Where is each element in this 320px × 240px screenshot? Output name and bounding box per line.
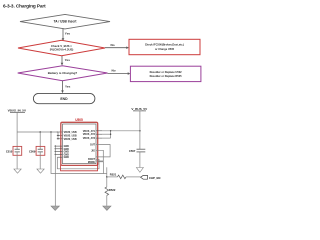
svg-text:MODE: MODE	[88, 161, 96, 164]
wire red U loop	[61, 163, 98, 171]
ground MGND left (filled)	[51, 206, 59, 210]
wire arrow down Yes1	[62, 28, 71, 41]
svg-text:GND: GND	[64, 156, 70, 159]
pin stubs right top	[96, 131, 102, 138]
svg-text:No: No	[111, 43, 115, 47]
wire VBUS bus horizontal	[17, 131, 58, 133]
wire inner gray U loop	[57, 157, 99, 169]
svg-text:Battery is Charging?: Battery is Charging?	[48, 71, 78, 75]
wire down to resistor junction	[106, 167, 108, 177]
svg-text:Yes: Yes	[65, 84, 71, 88]
wire outer U to junction connector	[104, 173, 107, 175]
svg-text:VBUS_AT3: VBUS_AT3	[83, 137, 96, 140]
flowchart start diamond TA/USB Insert	[20, 14, 110, 29]
svg-text:6-3-3. Charging Part: 6-3-3. Charging Part	[3, 3, 46, 8]
svg-text:Resolder or Replace U502: Resolder or Replace U502	[150, 70, 183, 74]
svg-text:C509: C509	[29, 150, 36, 154]
net label VBUS_IN_5V	[8, 109, 26, 113]
svg-text:Yes: Yes	[65, 32, 71, 36]
svg-text:Check IFC500(Broken,Dust,etc.: Check IFC500(Broken,Dust,etc.)	[145, 43, 184, 47]
svg-text:VBUS_AT2: VBUS_AT2	[83, 133, 96, 136]
net label V_BUS_5V	[131, 107, 148, 111]
wire right pin tie	[110, 131, 112, 138]
svg-text:R522: R522	[109, 188, 116, 192]
terminator END	[33, 93, 95, 103]
svg-text:R521: R521	[110, 173, 117, 177]
wire right loop JIG-161	[96, 150, 103, 161]
svg-text:JIG: JIG	[91, 149, 95, 152]
ground under C510	[14, 155, 21, 173]
wire VBUS_IN_5V down	[16, 113, 18, 132]
ground under C509	[37, 155, 44, 173]
wire right loop OUT-BOOT	[96, 145, 110, 157]
pin stubs left VBUS	[57, 132, 63, 139]
svg-text:U505: U505	[75, 118, 83, 122]
decision diamond Check V_BUS (red)	[18, 40, 105, 56]
node bus-C509	[39, 131, 41, 133]
pin labels U505 left	[64, 131, 77, 159]
node R junction	[106, 176, 108, 178]
svg-text:or Charge U505: or Charge U505	[155, 47, 175, 51]
wire No2 to purple box	[108, 69, 131, 75]
ground MGND right (filled)	[103, 206, 111, 210]
node CHP_EN tag	[141, 175, 161, 180]
resistor R522	[105, 177, 116, 206]
wire pin tie left top	[57, 132, 59, 139]
capacitor C509	[29, 132, 45, 155]
node right VBUS tie junction 2	[110, 134, 111, 135]
wire arrow down Yes2	[61, 56, 71, 66]
node left VBUS tie junction 1	[57, 135, 58, 136]
node left VBUS tie junction 2	[57, 138, 58, 139]
svg-text:VBUS_USB: VBUS_USB	[64, 138, 77, 141]
capacitor C510	[6, 132, 22, 155]
action box Check IFC500 (red)	[129, 39, 200, 54]
svg-text:5V(CHGVI>4.3US): 5V(CHGVI>4.3US)	[50, 48, 74, 52]
svg-text:VBUS_IN_5V: VBUS_IN_5V	[8, 109, 26, 113]
wire GND tie down to ground	[54, 146, 56, 206]
wire No1 to red box	[105, 43, 129, 49]
node bus-down	[50, 131, 52, 133]
wire arrow down Yes3	[61, 81, 70, 93]
svg-text:C510: C510	[6, 150, 13, 154]
svg-text:Resolder or Replace R525: Resolder or Replace R525	[150, 74, 183, 78]
svg-text:C507: C507	[129, 149, 136, 153]
node right VBUS tie junction 1	[110, 130, 111, 131]
svg-text:OUT: OUT	[90, 144, 96, 147]
ground under C507	[136, 168, 143, 173]
resistor R521	[107, 173, 141, 179]
IC U505	[61, 118, 98, 166]
pin labels U505 right	[83, 130, 96, 164]
svg-text:Yes: Yes	[65, 58, 71, 62]
wire V_BUS_5V down	[139, 111, 141, 149]
svg-text:TA / USB Insert: TA / USB Insert	[54, 20, 78, 24]
node V_BUS_5V junction	[139, 130, 141, 132]
svg-text:CHP_EN: CHP_EN	[149, 176, 160, 180]
action box Resolder or Replace (purple)	[130, 66, 201, 81]
capacitor C507	[129, 149, 145, 168]
wire VBUS right to V_BUS_5V	[102, 130, 140, 132]
svg-text:V_BUS_5V: V_BUS_5V	[131, 107, 148, 111]
svg-text:END: END	[60, 97, 68, 101]
decision diamond Battery is Charging? (purple)	[18, 66, 108, 81]
svg-text:No: No	[112, 69, 116, 73]
wire outer U loop	[51, 132, 104, 174]
pin stubs left GND	[55, 146, 62, 157]
node GND tie dots	[55, 145, 56, 155]
